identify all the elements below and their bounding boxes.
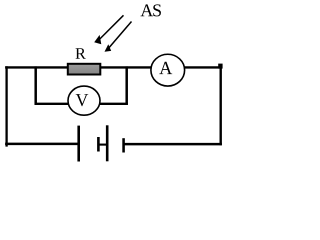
light arrow 2 head [105,44,112,52]
voltmeter circle [68,86,100,115]
junction dot top-right corner [218,64,222,69]
wire left vertical [5,66,7,146]
light arrow 1 shaft [98,15,123,40]
wire bottom left segment [5,143,79,146]
light arrow 2 shaft [108,22,132,49]
battery cell2 long plate [106,125,109,161]
battery cell2 short plate [122,138,125,152]
label R [75,48,85,59]
light arrow 1 head [94,35,101,44]
wire voltmeter branch left vertical [34,66,37,104]
wire right vertical [219,66,221,145]
battery cell1 long plate [77,126,80,162]
wire voltmeter branch bottom horizontal [35,103,128,105]
wire voltmeter branch right vertical [125,66,128,104]
wire top horizontal [5,66,222,68]
label AS letter A [141,4,154,16]
wire bottom right segment [124,143,222,146]
ammeter circle [151,54,185,86]
ammeter letter A [159,62,172,74]
resistor R body [68,64,101,75]
label AS letter S [153,4,161,16]
voltmeter letter V [76,94,89,106]
battery cell1 short plate [97,137,100,152]
wire between battery cells [98,144,108,146]
